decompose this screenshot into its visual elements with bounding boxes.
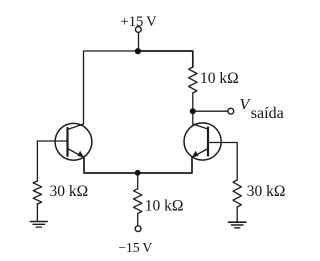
svg-text:V: V	[240, 97, 252, 114]
svg-text:10 kΩ: 10 kΩ	[145, 198, 184, 215]
svg-text:+15 V: +15 V	[121, 14, 158, 30]
svg-text:−15 V: −15 V	[118, 240, 152, 255]
svg-text:30 kΩ: 30 kΩ	[50, 183, 89, 200]
svg-text:10 kΩ: 10 kΩ	[200, 70, 239, 87]
svg-text:30 kΩ: 30 kΩ	[247, 183, 286, 200]
svg-text:saída: saída	[251, 105, 284, 122]
